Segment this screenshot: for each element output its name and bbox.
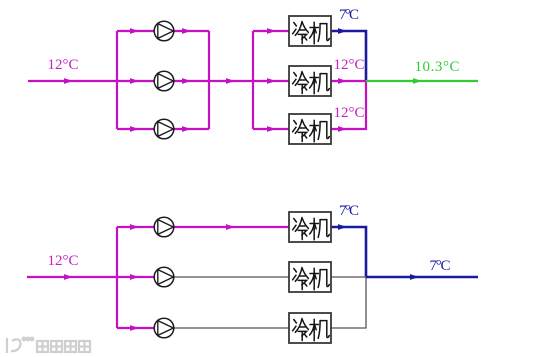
- pump P3: [154, 119, 174, 139]
- wire: bottom chiller3 outlet gray: [331, 277, 366, 328]
- wire: bottom supply line 12C: [27, 276, 117, 278]
- arrow on top supply line: [64, 78, 73, 84]
- chiller U5: [289, 262, 331, 292]
- arrow branch3 pre-pump: [130, 126, 139, 132]
- pump P4: [154, 217, 174, 237]
- wire: top left pump manifold: [116, 31, 118, 129]
- svg-text:7°C: 7°C: [339, 203, 359, 219]
- arrow branch2 pre-pump: [130, 78, 139, 84]
- arrow chiller1 feed: [267, 28, 276, 34]
- wire: bottom pump branch 3 idle gray: [164, 327, 289, 329]
- wire: bottom pump branch 1 active: [117, 226, 289, 228]
- arrow bottom branch1 mid: [226, 224, 235, 230]
- pump P2: [154, 71, 174, 91]
- wire: top chiller manifold: [252, 31, 254, 129]
- chiller U2: [289, 66, 331, 96]
- chiller U4: [289, 212, 331, 242]
- chiller U1: [289, 16, 331, 46]
- wire: bottom pump branch 3 inlet magenta: [117, 327, 160, 329]
- arrow bottom chiller1 outlet: [338, 224, 347, 230]
- pump P6: [154, 318, 174, 338]
- arrow mixed output: [413, 78, 422, 84]
- svg-text:10.3°C: 10.3°C: [415, 59, 460, 75]
- wire: chiller1 feed: [253, 30, 289, 32]
- arrow bottom branch3 pre-pump: [130, 325, 139, 331]
- wire: bottom output blue 7C: [366, 276, 478, 279]
- wire: chiller3 feed: [253, 128, 289, 130]
- wire: bottom chiller2 outlet gray: [331, 276, 366, 278]
- svg-text:12°C: 12°C: [333, 105, 364, 121]
- wire: bottom pump branch 2 inlet magenta: [117, 276, 160, 278]
- chiller U6: [289, 313, 331, 343]
- wire: chiller2 feed: [253, 80, 289, 82]
- chiller U3: [289, 114, 331, 144]
- svg-text:7°C: 7°C: [339, 7, 359, 23]
- svg-text:12°C: 12°C: [47, 57, 78, 73]
- wire: chiller1 outlet blue: [331, 31, 366, 81]
- arrow on bottom supply line: [64, 274, 73, 280]
- arrow branch1 post-pump: [182, 28, 191, 34]
- svg-text:12°C: 12°C: [47, 253, 78, 269]
- arrow branch1 pre-pump: [130, 28, 139, 34]
- arrow chiller3 feed: [267, 126, 276, 132]
- wire: chiller3 outlet magenta: [331, 81, 366, 129]
- arrow branch3 post-pump: [182, 126, 191, 132]
- wire: bottom left pump manifold: [116, 227, 118, 328]
- watermark logo bottom-left: [7, 338, 90, 353]
- arrow connector: [226, 78, 235, 84]
- wire: top supply line 12C: [28, 80, 117, 82]
- wire: chiller2 outlet magenta: [331, 80, 366, 82]
- arrow bottom output: [410, 274, 419, 280]
- arrow chiller3 outlet: [338, 126, 347, 132]
- wire: top pump branch 1: [117, 30, 209, 32]
- pump P1: [154, 21, 174, 41]
- wire: top pump branch 3: [117, 128, 209, 130]
- wire: top connector to chiller manifold: [209, 80, 253, 82]
- wire: top pump branch 2: [117, 80, 209, 82]
- arrow branch2 post-pump: [182, 78, 191, 84]
- wire: mixed output green 10.3C: [366, 80, 478, 82]
- arrow bottom branch2 pre-pump: [130, 274, 139, 280]
- arrow chiller2 outlet: [338, 78, 347, 84]
- wire: bottom chiller1 outlet blue: [331, 227, 366, 277]
- pump P5: [154, 267, 174, 287]
- wire: bottom pump branch 2 idle gray: [164, 276, 289, 278]
- wire: top right pump manifold: [208, 31, 210, 129]
- arrow chiller2 feed: [267, 78, 276, 84]
- arrow bottom branch1 pre-pump: [130, 224, 139, 230]
- svg-text:12°C: 12°C: [333, 57, 364, 73]
- svg-text:7°C: 7°C: [430, 258, 451, 274]
- arrow chiller1 outlet: [338, 28, 347, 34]
